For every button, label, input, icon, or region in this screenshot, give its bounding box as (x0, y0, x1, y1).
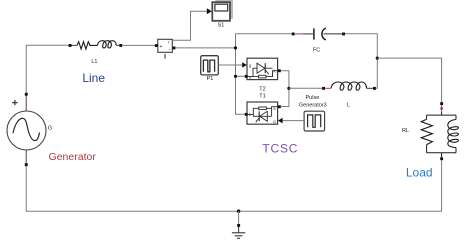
wire to load (377, 58, 441, 102)
svg-text:+: + (160, 44, 163, 50)
stub bus to T2 a (236, 75, 246, 77)
T1 snubber resistor (259, 107, 267, 110)
port pad I right (173, 47, 176, 50)
port pad L left (322, 87, 325, 90)
L coil (331, 82, 367, 90)
signal wire Pulse Generator3 to T1 gate (283, 120, 304, 122)
svg-text:Generator: Generator (49, 151, 97, 163)
junction bus / I output (234, 46, 237, 49)
generator sine wave (13, 118, 40, 140)
svg-text:FC: FC (313, 48, 320, 54)
svg-text:TCSC: TCSC (262, 142, 298, 156)
port pad T2 a (245, 75, 248, 78)
scope S1 shadow (215, 0, 233, 19)
top wire FC to right rail (345, 33, 377, 35)
svg-text:Line: Line (82, 71, 105, 85)
generator plus sign (12, 100, 17, 105)
bus vertical wire (236, 34, 246, 115)
FC red orientation stub (295, 33, 303, 35)
scope S1 screen (215, 4, 228, 11)
FC left plate (313, 28, 315, 39)
wire L1 to I block (122, 44, 155, 46)
svg-text:Pulse: Pulse (306, 95, 320, 101)
signal wire P1 to T2 gate (219, 64, 243, 66)
generator top stub (25, 96, 27, 112)
port pad L right (373, 87, 376, 90)
port pad load bottom (440, 157, 443, 160)
scope S1 (212, 2, 230, 21)
svg-text:Load: Load (406, 165, 433, 179)
svg-text:L: L (347, 103, 350, 109)
arrowhead into T2 g (242, 62, 247, 68)
ground symbol (238, 227, 240, 233)
svg-text:T2: T2 (259, 86, 265, 92)
port pad FC right (342, 33, 345, 36)
T2 gate lead (265, 70, 268, 75)
thyristor block T2 (247, 58, 278, 79)
right rail vertical (376, 34, 377, 89)
generator circle (7, 111, 46, 150)
FC right stub (324, 33, 343, 35)
ground port pad (237, 224, 240, 227)
junction k-wire / L-branch (287, 87, 290, 90)
pulse generator P1 (201, 56, 219, 75)
resistor-inductor branch L1 (72, 41, 120, 49)
svg-text:S1: S1 (218, 23, 225, 29)
T2 thyristor triangle (257, 63, 265, 73)
L red orientation stub (325, 87, 331, 89)
svg-text:G: G (48, 125, 52, 131)
port pad I left (155, 44, 158, 47)
load top stem and rails (427, 111, 456, 157)
wire generator-top to L1 left (26, 45, 68, 95)
wire I output to bus (175, 47, 235, 49)
svg-text:RL: RL (402, 128, 409, 134)
svg-text:Generator3: Generator3 (299, 103, 327, 109)
port pad L1 left (69, 44, 72, 47)
load red orientation arrow (441, 105, 443, 108)
FC right curved plate (322, 28, 326, 40)
T2 snubber resistor (259, 75, 267, 78)
T1 cathode bar (258, 111, 260, 121)
signal wire I.i to scope S1 (172, 11, 207, 40)
current measurement block I (158, 39, 173, 52)
wire junction to L branch (289, 87, 322, 89)
generator bottom stub (25, 149, 27, 164)
load inductor coil (448, 120, 459, 148)
T1 thyristor triangle (260, 111, 268, 121)
port pad load top (440, 102, 443, 105)
svg-text:L1: L1 (91, 59, 97, 65)
port pad generator bottom (25, 163, 28, 166)
port pad T1 a (278, 105, 281, 108)
arrowhead into S1 (207, 8, 212, 14)
ground stem (238, 211, 240, 224)
label I (165, 54, 166, 59)
port pad FC left (292, 33, 295, 36)
port pad L1 right (119, 44, 122, 47)
port pad T2 k (278, 69, 281, 72)
wire load bottom / bottom bus / generator bottom (26, 160, 441, 211)
top wire bus to FC (236, 33, 292, 35)
junction bus / T2 a (234, 75, 237, 78)
load resistor zigzag (421, 119, 432, 144)
port pad T1 k (245, 113, 248, 116)
T2 cathode bar (264, 63, 266, 73)
port pad generator top (25, 93, 28, 96)
svg-text:P1: P1 (207, 76, 214, 82)
svg-text:T1: T1 (259, 93, 265, 99)
wire T2 k to junction and down to T1 a (281, 71, 289, 107)
arrowhead into T1 g (278, 118, 283, 124)
thyristor block T1 (247, 102, 278, 124)
junction right rail / load wire (376, 57, 379, 60)
junction bottom wire / ground (237, 210, 240, 213)
T1 gate lead (256, 118, 259, 122)
